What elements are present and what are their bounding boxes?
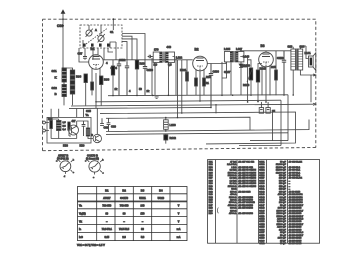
tuning gang section a: [86, 29, 93, 37]
svg-text:850 µF: 850 µF: [279, 191, 287, 193]
svg-text:47000 Ω: 47000 Ω: [228, 204, 237, 207]
svg-text:C138: C138: [259, 180, 265, 182]
svg-text:AB 415 03 052/05: AB 415 03 052/05: [238, 182, 257, 185]
diode detector: [239, 62, 243, 95]
resistor R96: [84, 74, 87, 105]
capacitor C104: [117, 60, 121, 96]
resistor R98: [100, 76, 103, 105]
IFT1 coil L101 former: [166, 52, 175, 62]
svg-text:49 093 51./04: 49 093 51./04: [289, 177, 303, 180]
svg-text:--: --: [106, 220, 108, 223]
svg-text:2.2+5 kΩ: 2.2+5 kΩ: [227, 164, 236, 166]
svg-text:740-850: 740-850: [120, 205, 129, 208]
tuning gang section b: [98, 34, 105, 42]
wire border tap: [112, 18, 114, 30]
svg-text:Ta: Ta: [86, 113, 89, 117]
wire dropper misc: [187, 60, 216, 114]
transformer primary S13: [291, 49, 296, 70]
svg-text:C98: C98: [104, 126, 109, 130]
svg-text:C140: C140: [259, 185, 265, 188]
svg-text:50 µF: 50 µF: [280, 235, 286, 237]
svg-text:22000 Ω: 22000 Ω: [228, 175, 237, 177]
resistor R103: [203, 78, 206, 86]
svg-text:15.000 µF: 15.000 µF: [276, 172, 287, 174]
resistor R142: [164, 134, 168, 144]
parts table grid: [208, 160, 320, 244]
svg-text:IaO: IaO: [79, 236, 83, 239]
wire osc internals: [45, 119, 93, 139]
capacitor C106: [209, 64, 213, 108]
svg-text:R93: R93: [48, 118, 53, 121]
svg-text:170: 170: [154, 48, 159, 52]
wire staircase 1: [122, 34, 145, 63]
svg-text:C106: C106: [213, 70, 220, 74]
svg-text:25000 µF: 25000 µF: [277, 210, 287, 212]
svg-text:48 292 230/08: 48 292 230/08: [289, 199, 304, 202]
svg-text:L108: L108: [170, 123, 177, 127]
IFT1 coil L99 former: [153, 52, 162, 62]
svg-text:AB 415 03 052/05: AB 415 03 052/05: [238, 177, 257, 180]
svg-text:C107: C107: [224, 70, 231, 74]
measurement table grid: [78, 187, 188, 241]
svg-text:AB 582 303/08: AB 582 303/08: [238, 204, 253, 207]
svg-text:C155: C155: [259, 227, 265, 229]
resistor R97: [111, 60, 114, 96]
svg-text:25 µF: 25 µF: [280, 232, 286, 234]
svg-text:C154: C154: [259, 223, 265, 226]
oscillator shield box: [47, 117, 91, 143]
svg-text:140: 140: [141, 205, 146, 208]
svg-text:R136: R136: [243, 83, 250, 87]
svg-text:C134: C134: [259, 169, 265, 172]
svg-text:73.5-78.5: 73.5-78.5: [119, 228, 130, 231]
measurement table data: [79, 205, 181, 239]
svg-text:48 290 230/9: 48 290 230/9: [289, 226, 303, 229]
svg-text:L102: L102: [176, 56, 183, 60]
svg-text:C145: C145: [259, 199, 265, 202]
svg-text:48 290 230/9.7: 48 290 230/9.7: [289, 234, 304, 237]
svg-text:mA: mA: [177, 228, 181, 231]
svg-text:B3: B3: [261, 44, 265, 48]
svg-text:K98: K98: [63, 144, 68, 148]
svg-text:220 µF: 220 µF: [279, 178, 287, 180]
svg-text:443: 443: [167, 45, 172, 49]
chassis dashed border: [43, 19, 316, 151]
svg-text:AB 415 03 052/05: AB 415 03 052/05: [238, 179, 257, 182]
svg-text:C146: C146: [259, 201, 265, 204]
svg-text:C136: C136: [259, 175, 265, 177]
svg-text:--: --: [142, 220, 144, 223]
svg-text:C102: C102: [119, 58, 126, 62]
svg-text:48 290 230/8: 48 290 230/8: [289, 228, 303, 231]
svg-text:48 292 230/9: 48 292 230/9: [289, 212, 303, 215]
svg-text:125 µF: 125 µF: [279, 189, 287, 191]
svg-text:AB 435 303/08: AB 435 303/08: [238, 199, 253, 202]
svg-text:AB 415 03 052/05: AB 415 03 052/05: [238, 185, 257, 188]
IFT2 coil L107 former: [236, 52, 244, 62]
tube B2: [193, 56, 208, 95]
svg-text:UM11: UM11: [139, 197, 146, 200]
svg-text:AB 415 03 052/05: AB 415 03 052/05: [238, 171, 257, 174]
svg-text:AB 415 03 052/05: AB 415 03 052/05: [238, 169, 257, 172]
wire B3 plate: [240, 51, 291, 102]
svg-text:48 290 230/8: 48 290 230/8: [289, 237, 303, 240]
svg-text:2.2 µF: 2.2 µF: [280, 197, 287, 199]
resistor R45: [275, 51, 278, 96]
loudspeaker: [309, 53, 316, 71]
svg-text:850 µF: 850 µF: [279, 183, 287, 185]
svg-text:25 µF: 25 µF: [280, 240, 286, 242]
svg-text:L105: L105: [224, 47, 231, 51]
svg-text:--: --: [289, 186, 291, 188]
wire staircase 3: [122, 39, 137, 60]
svg-text:C150: C150: [259, 213, 265, 215]
coil L108: [164, 118, 169, 132]
svg-text:8.2 µF: 8.2 µF: [280, 200, 287, 202]
capacitor C90: [82, 121, 86, 136]
parts table R rows: [209, 160, 257, 215]
svg-text:C157: C157: [259, 232, 265, 234]
svg-text:850 µF: 850 µF: [279, 186, 287, 188]
wire osc feeds: [51, 108, 97, 134]
svg-text:48 292 230/08: 48 292 230/08: [289, 201, 304, 204]
svg-text:R101: R101: [180, 68, 187, 72]
capacitor C119: [282, 51, 286, 96]
junction dots: [62, 67, 294, 132]
svg-text:C159: C159: [259, 238, 265, 240]
svg-text:1.8 kΩ: 1.8 kΩ: [230, 180, 237, 182]
svg-text:C95: C95: [86, 109, 91, 113]
svg-text:R96: R96: [76, 75, 82, 79]
svg-text:15000 Ω: 15000 Ω: [228, 186, 237, 188]
wire B1 plate line: [103, 59, 192, 61]
value labels row: [115, 88, 150, 93]
svg-text:500 µF: 500 µF: [279, 180, 287, 182]
resistor R100: [91, 82, 94, 90]
svg-text:1000 µF: 1000 µF: [278, 208, 287, 210]
wire B1 cathode: [92, 73, 96, 108]
svg-text:4700 Ω: 4700 Ω: [229, 212, 236, 215]
svg-text:5.600 µF: 5.600 µF: [277, 221, 286, 223]
svg-text:10000 Ω: 10000 Ω: [228, 172, 237, 174]
svg-text:R1: R1: [206, 81, 210, 85]
svg-text:C156: C156: [259, 229, 265, 231]
wire B2 plate: [200, 62, 226, 102]
pinout circle AF117: [59, 160, 73, 174]
resistor R90: [50, 119, 53, 139]
wire ift2 leads: [222, 62, 231, 96]
gang dashed coupling: [86, 29, 107, 45]
svg-text:700-850: 700-850: [102, 205, 111, 208]
capacitor C115: [259, 102, 263, 113]
svg-text:2700 Ω: 2700 Ω: [229, 202, 236, 204]
svg-text:K99: K99: [80, 144, 85, 148]
coil S12: [62, 85, 66, 97]
svg-text:470 Ω: 470 Ω: [230, 193, 236, 196]
svg-text:C99: C99: [111, 125, 116, 129]
coil value labels: [63, 122, 67, 131]
capacitor C99: [107, 118, 111, 131]
svg-text:A: A: [95, 28, 97, 32]
bus y113: [100, 112, 296, 144]
svg-text:C148: C148: [259, 207, 265, 210]
svg-text:C139: C139: [259, 183, 265, 185]
capacitor C116: [266, 102, 270, 113]
svg-text:--: --: [289, 180, 291, 182]
svg-text:C1: C1: [110, 30, 114, 34]
svg-text:B2: B2: [195, 48, 199, 52]
svg-text:49 090 51.1: 49 090 51.1: [289, 166, 301, 169]
svg-text:AB 415 03 052/05: AB 415 03 052/05: [238, 174, 257, 177]
svg-text:170: 170: [141, 213, 146, 216]
resistor R91: [68, 122, 70, 136]
svg-text:47 kΩ: 47 kΩ: [230, 160, 236, 163]
capacitor C103: [143, 62, 147, 95]
bus y108: [69, 107, 211, 108]
svg-text:150 Ω: 150 Ω: [230, 191, 236, 193]
svg-text:2500 µF: 2500 µF: [278, 238, 287, 240]
pinout pins b: [85, 160, 104, 179]
svg-text:B1: B1: [105, 189, 109, 193]
parts table bracket: [216, 208, 219, 214]
svg-text:1,0: 1,0: [154, 63, 158, 67]
svg-text:B3: B3: [141, 189, 145, 193]
svg-text:L141: L141: [305, 51, 312, 55]
wire right frame verticals: [239, 95, 288, 146]
svg-text:4.800 µF: 4.800 µF: [277, 226, 286, 229]
tube B3: [259, 52, 274, 95]
transformer secondary S14: [298, 49, 303, 70]
potentiometer R139: [247, 60, 253, 96]
IFT1 core: [163, 52, 164, 63]
svg-text:C131: C131: [259, 161, 265, 163]
svg-text:C143: C143: [259, 193, 265, 196]
svg-text:48 292 230/8.7: 48 292 230/8.7: [289, 209, 304, 212]
wire ift1 leads: [152, 57, 182, 118]
svg-text:120 µF: 120 µF: [279, 202, 287, 204]
svg-text:AF117: AF117: [103, 197, 111, 200]
wire tuner internal: [85, 48, 116, 60]
svg-text:C141: C141: [259, 188, 265, 191]
svg-text:49 090 51.1: 49 090 51.1: [289, 169, 301, 172]
svg-text:5.6 kΩ: 5.6 kΩ: [230, 183, 237, 185]
svg-text:AB 435 303/08: AB 435 303/08: [238, 196, 253, 199]
svg-text:R142: R142: [170, 136, 177, 140]
transformer core: [296, 49, 297, 71]
svg-text:AB 467 031 052: AB 467 031 052: [238, 160, 255, 163]
svg-text:15.000 µF: 15.000 µF: [276, 167, 287, 169]
resistor R140: [256, 64, 262, 102]
svg-text:49 013 51.2/4: 49 013 51.2/4: [289, 160, 303, 163]
svg-text:1000 Ω: 1000 Ω: [229, 197, 236, 199]
coil L97: [70, 70, 74, 94]
svg-text:48 292 230/8.7: 48 292 230/8.7: [289, 215, 304, 218]
bus y131: [106, 120, 309, 132]
transistor T1: [67, 121, 79, 139]
terminal jack J1: [43, 121, 46, 124]
svg-text:mA: mA: [177, 236, 181, 239]
oscillator coil L91: [57, 119, 62, 139]
svg-text:56 Ω: 56 Ω: [231, 189, 236, 191]
svg-text:15.000 µF: 15.000 µF: [276, 164, 287, 166]
svg-text:48 290 230/9: 48 290 230/9: [289, 239, 303, 242]
parts table C rows: [259, 160, 304, 245]
capacitor C98a: [148, 55, 153, 58]
svg-text:0.25: 0.25: [104, 236, 109, 239]
svg-text:25: 25: [272, 109, 275, 113]
supply rail with arrow: [71, 103, 316, 106]
svg-text:49 090 51.1: 49 090 51.1: [289, 171, 301, 174]
tuning unit dashed box: [80, 25, 122, 48]
svg-text:C132: C132: [259, 164, 265, 166]
svg-text:C149: C149: [259, 209, 265, 212]
ground symbol: [155, 97, 159, 99]
svg-text:50 µF: 50 µF: [280, 161, 286, 163]
svg-text:Vg(M): Vg(M): [79, 213, 86, 216]
svg-text:C119: C119: [277, 56, 284, 60]
svg-text:25000 µF: 25000 µF: [277, 213, 287, 215]
svg-text:4k7: 4k7: [72, 120, 77, 123]
coil L90: [86, 128, 89, 136]
svg-text:125 µF: 125 µF: [279, 229, 287, 231]
svg-text:B1: B1: [91, 47, 95, 51]
svg-text:C160: C160: [259, 240, 265, 242]
svg-text:--: --: [123, 220, 125, 223]
svg-text:AB 268 38/8: AB 268 38/8: [238, 190, 251, 193]
svg-text:48 292 230/9.7: 48 292 230/9.7: [289, 223, 304, 226]
svg-text:D: D: [91, 133, 93, 137]
svg-text:C137: C137: [259, 178, 265, 180]
svg-text:S11: S11: [52, 69, 58, 73]
IFT2 coil L105 former: [224, 52, 232, 62]
svg-text:C142: C142: [259, 190, 265, 193]
wire speaker leads: [305, 46, 316, 102]
bus y101: [96, 100, 281, 102]
svg-text:15.000 µF: 15.000 µF: [276, 170, 287, 172]
capacitor C98b: [100, 118, 104, 125]
svg-text:48 290 230/8: 48 290 230/8: [289, 242, 303, 245]
svg-text:AB 467 303/08/8: AB 467 303/08/8: [238, 201, 255, 204]
antenna: [61, 9, 66, 68]
wire transformer leads: [293, 46, 306, 95]
coil S11: [62, 68, 66, 82]
terminal jack J2: [43, 129, 46, 132]
svg-text:R99: R99: [140, 62, 145, 66]
svg-text:48 292 230/9.7: 48 292 230/9.7: [289, 204, 304, 207]
svg-text:C97: C97: [78, 52, 83, 56]
svg-text:C135: C135: [259, 172, 265, 174]
svg-text:R45: R45: [271, 65, 276, 69]
svg-text:220 Ω: 220 Ω: [230, 200, 236, 202]
svg-text:C133: C133: [259, 167, 265, 169]
svg-text:UC13: UC13: [158, 197, 165, 200]
capacitor C97: [83, 54, 87, 60]
svg-text:1 kΩ: 1 kΩ: [231, 167, 236, 169]
svg-text:S12: S12: [52, 86, 58, 90]
svg-text:50 µF: 50 µF: [280, 243, 286, 245]
svg-text:48 292 230/01: 48 292 230/01: [289, 196, 304, 199]
svg-text:56 µF: 56 µF: [280, 205, 286, 207]
svg-text:AB 205 11 052: AB 205 11 052: [238, 166, 253, 169]
svg-text:850 µF: 850 µF: [279, 175, 287, 177]
svg-text:25000 µF: 25000 µF: [277, 224, 287, 226]
svg-text:C158: C158: [259, 235, 265, 237]
pinout pins a: [56, 160, 75, 178]
svg-text:R33: R33: [206, 76, 211, 79]
svg-text:C161: C161: [259, 243, 265, 245]
svg-text:C153: C153: [259, 221, 265, 223]
wire staircase 4: [122, 42, 127, 62]
capacitor C102: [125, 62, 129, 95]
svg-text:6.8 kΩ: 6.8 kΩ: [230, 170, 237, 172]
svg-text:73.8-78.1: 73.8-78.1: [102, 228, 113, 231]
svg-text:49 13 019/8: 49 13 019/8: [289, 190, 301, 193]
resistor R102: [195, 78, 198, 86]
svg-text:48 292 230/8: 48 292 230/8: [289, 220, 303, 223]
svg-text:48 290 330/2.6: 48 290 330/2.6: [289, 231, 304, 234]
ground bus: [108, 94, 288, 97]
svg-text:120 Ω: 120 Ω: [230, 210, 236, 212]
svg-text:C144: C144: [259, 196, 265, 199]
svg-text:25000 µF: 25000 µF: [277, 216, 287, 218]
tube B1: [89, 55, 104, 78]
measurement table tube names: [103, 197, 164, 200]
pinout circle OC170: [87, 160, 102, 174]
svg-text:48 292 230/01: 48 292 230/01: [289, 193, 304, 196]
measurement table headers: [105, 189, 163, 193]
svg-text:1.5 kΩ: 1.5 kΩ: [230, 178, 237, 180]
svg-text:VC1 = 84 V; VC2 = 1.5 V: VC1 = 84 V; VC2 = 1.5 V: [77, 244, 105, 247]
svg-text:R139: R139: [244, 64, 251, 68]
svg-text:C147: C147: [259, 204, 265, 207]
trimmer capacitors in tuner box: [83, 44, 110, 47]
svg-text:B2: B2: [122, 189, 126, 193]
wire antenna to coils: [63, 68, 73, 105]
svg-text:R98: R98: [104, 78, 110, 82]
svg-text:C152: C152: [259, 219, 265, 221]
svg-text:AB 435 303/08: AB 435 303/08: [238, 207, 253, 210]
svg-text:S13: S13: [288, 45, 293, 49]
svg-text:AB 435 303/08: AB 435 303/08: [238, 212, 253, 215]
svg-text:4.800 µF: 4.800 µF: [277, 218, 286, 221]
transistor T2: [93, 134, 101, 142]
wire B1 grid: [79, 48, 89, 62]
svg-text:--: --: [289, 183, 291, 185]
wire staircase 2: [122, 36, 132, 60]
resistor R99: [135, 60, 138, 95]
resistor R101: [186, 72, 189, 81]
bus y134: [106, 133, 288, 135]
bus y118: [106, 117, 250, 130]
svg-text:49 093 51.1: 49 093 51.1: [289, 174, 301, 177]
svg-text:48 292 230/8: 48 292 230/8: [289, 207, 303, 210]
wire det-pot: [240, 57, 247, 103]
svg-text:330 Ω: 330 Ω: [230, 208, 236, 210]
svg-text:B4: B4: [159, 189, 163, 193]
svg-text:C151: C151: [259, 216, 265, 218]
svg-text:4700 µF: 4700 µF: [278, 193, 287, 196]
svg-text:--: --: [289, 189, 291, 191]
IFT2 core: [234, 51, 235, 62]
svg-text:48 292 230/9.8: 48 292 230/9.8: [289, 218, 304, 221]
svg-text:OC170: OC170: [120, 197, 129, 200]
